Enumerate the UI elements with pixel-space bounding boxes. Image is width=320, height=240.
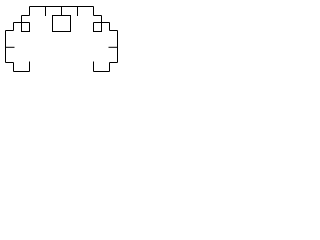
pad left square: [22, 23, 30, 32]
op-amp U1 center box: [53, 16, 71, 32]
pin top tick right: [77, 7, 79, 17]
capacitor C1 center divider stub: [61, 7, 63, 16]
wire right foot base: [94, 71, 110, 73]
wire right wall top horizontal: [110, 30, 118, 32]
wire left foot vertical: [13, 63, 15, 72]
node B junction right: [94, 22, 110, 24]
pin left inner tick: [6, 46, 15, 48]
wire left foot base: [14, 71, 30, 73]
pad right square: [94, 23, 102, 32]
wire left outer wall: [5, 31, 7, 63]
pin left foot stub: [29, 62, 31, 72]
pin right inner tick: [109, 46, 118, 48]
wire left wall top horizontal: [6, 30, 14, 32]
wire right bottom horizontal: [110, 62, 118, 64]
wire left bottom horizontal: [6, 62, 14, 64]
wire right vertical to wall top: [109, 23, 111, 31]
wire left stair horizontal level 2: [22, 15, 30, 17]
pin top tick left: [45, 7, 47, 17]
wire left vertical to wall top: [13, 23, 15, 31]
wire right stair vertical from top bus: [93, 7, 95, 16]
node A junction left: [14, 22, 30, 24]
wire left stair vertical from top bus: [29, 7, 31, 16]
wire top bus: [30, 6, 94, 8]
wire right stair vertical to node B: [101, 16, 103, 23]
pin right foot stub: [93, 62, 95, 72]
wire right stair horizontal level 2: [94, 15, 102, 17]
wire right foot vertical: [109, 63, 111, 72]
wire right outer wall: [117, 31, 119, 63]
wire left stair vertical to node A: [21, 16, 23, 23]
